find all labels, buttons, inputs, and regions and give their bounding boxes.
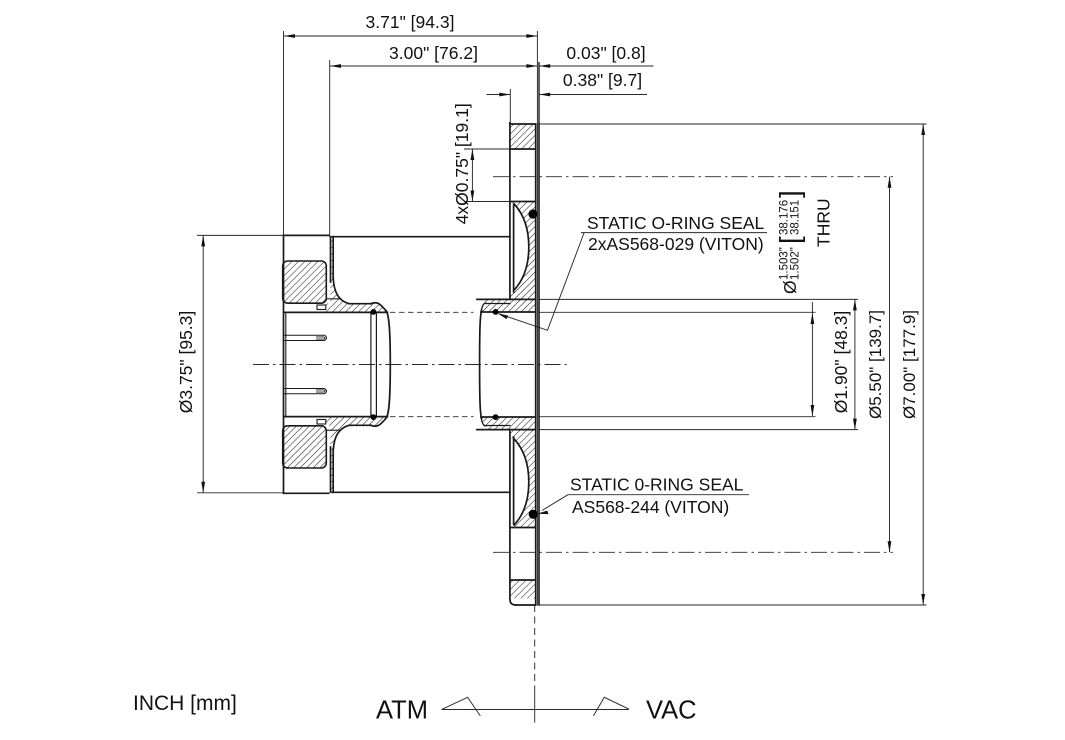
svg-text:0.03" [0.8]: 0.03" [0.8]	[566, 43, 645, 63]
svg-text:Ø: Ø	[780, 280, 800, 294]
svg-text:Ø7.00" [177.9]: Ø7.00" [177.9]	[900, 310, 919, 419]
svg-text:AS568-244 (VITON): AS568-244 (VITON)	[572, 497, 729, 517]
svg-text:INCH [mm]: INCH [mm]	[133, 692, 237, 715]
svg-text:STATIC 0-RING SEAL: STATIC 0-RING SEAL	[570, 475, 744, 495]
svg-text:ATM: ATM	[376, 697, 428, 725]
svg-text:0.38" [9.7]: 0.38" [9.7]	[563, 70, 642, 90]
svg-text:1.502": 1.502"	[790, 247, 802, 280]
svg-text:Ø3.75" [95.3]: Ø3.75" [95.3]	[176, 311, 196, 414]
svg-text:[: [	[774, 236, 805, 244]
svg-text:3.00" [76.2]: 3.00" [76.2]	[389, 43, 478, 63]
svg-text:2xAS568-029 (VITON): 2xAS568-029 (VITON)	[588, 234, 764, 254]
svg-text:Ø5.50" [139.7]: Ø5.50" [139.7]	[866, 310, 885, 419]
svg-text:Ø1.90" [48.3]: Ø1.90" [48.3]	[831, 311, 851, 414]
svg-text:38.151: 38.151	[790, 200, 802, 235]
svg-text:THRU: THRU	[814, 198, 834, 247]
svg-text:VAC: VAC	[646, 697, 697, 725]
svg-text:4xØ0.75" [19.1]: 4xØ0.75" [19.1]	[452, 103, 472, 224]
svg-text:3.71" [94.3]: 3.71" [94.3]	[366, 12, 455, 32]
svg-text:]: ]	[774, 190, 805, 198]
svg-text:STATIC O-RING SEAL: STATIC O-RING SEAL	[587, 213, 765, 233]
